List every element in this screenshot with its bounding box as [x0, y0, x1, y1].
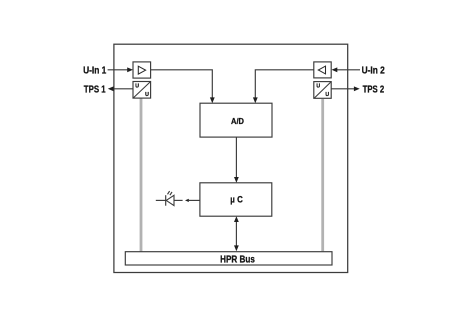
svg-text:U-In 1: U-In 1 [83, 66, 107, 77]
svg-text:A/D: A/D [231, 117, 244, 126]
svg-text:HPR Bus: HPR Bus [220, 254, 255, 265]
svg-text:U: U [135, 83, 139, 89]
svg-text:TPS 1: TPS 1 [84, 85, 106, 96]
svg-text:U: U [325, 92, 329, 98]
svg-text:U-In 2: U-In 2 [362, 66, 385, 77]
svg-text:µ C: µ C [230, 195, 243, 205]
svg-text:U: U [316, 84, 320, 90]
svg-text:U: U [145, 92, 149, 98]
svg-text:TPS 2: TPS 2 [363, 85, 385, 96]
